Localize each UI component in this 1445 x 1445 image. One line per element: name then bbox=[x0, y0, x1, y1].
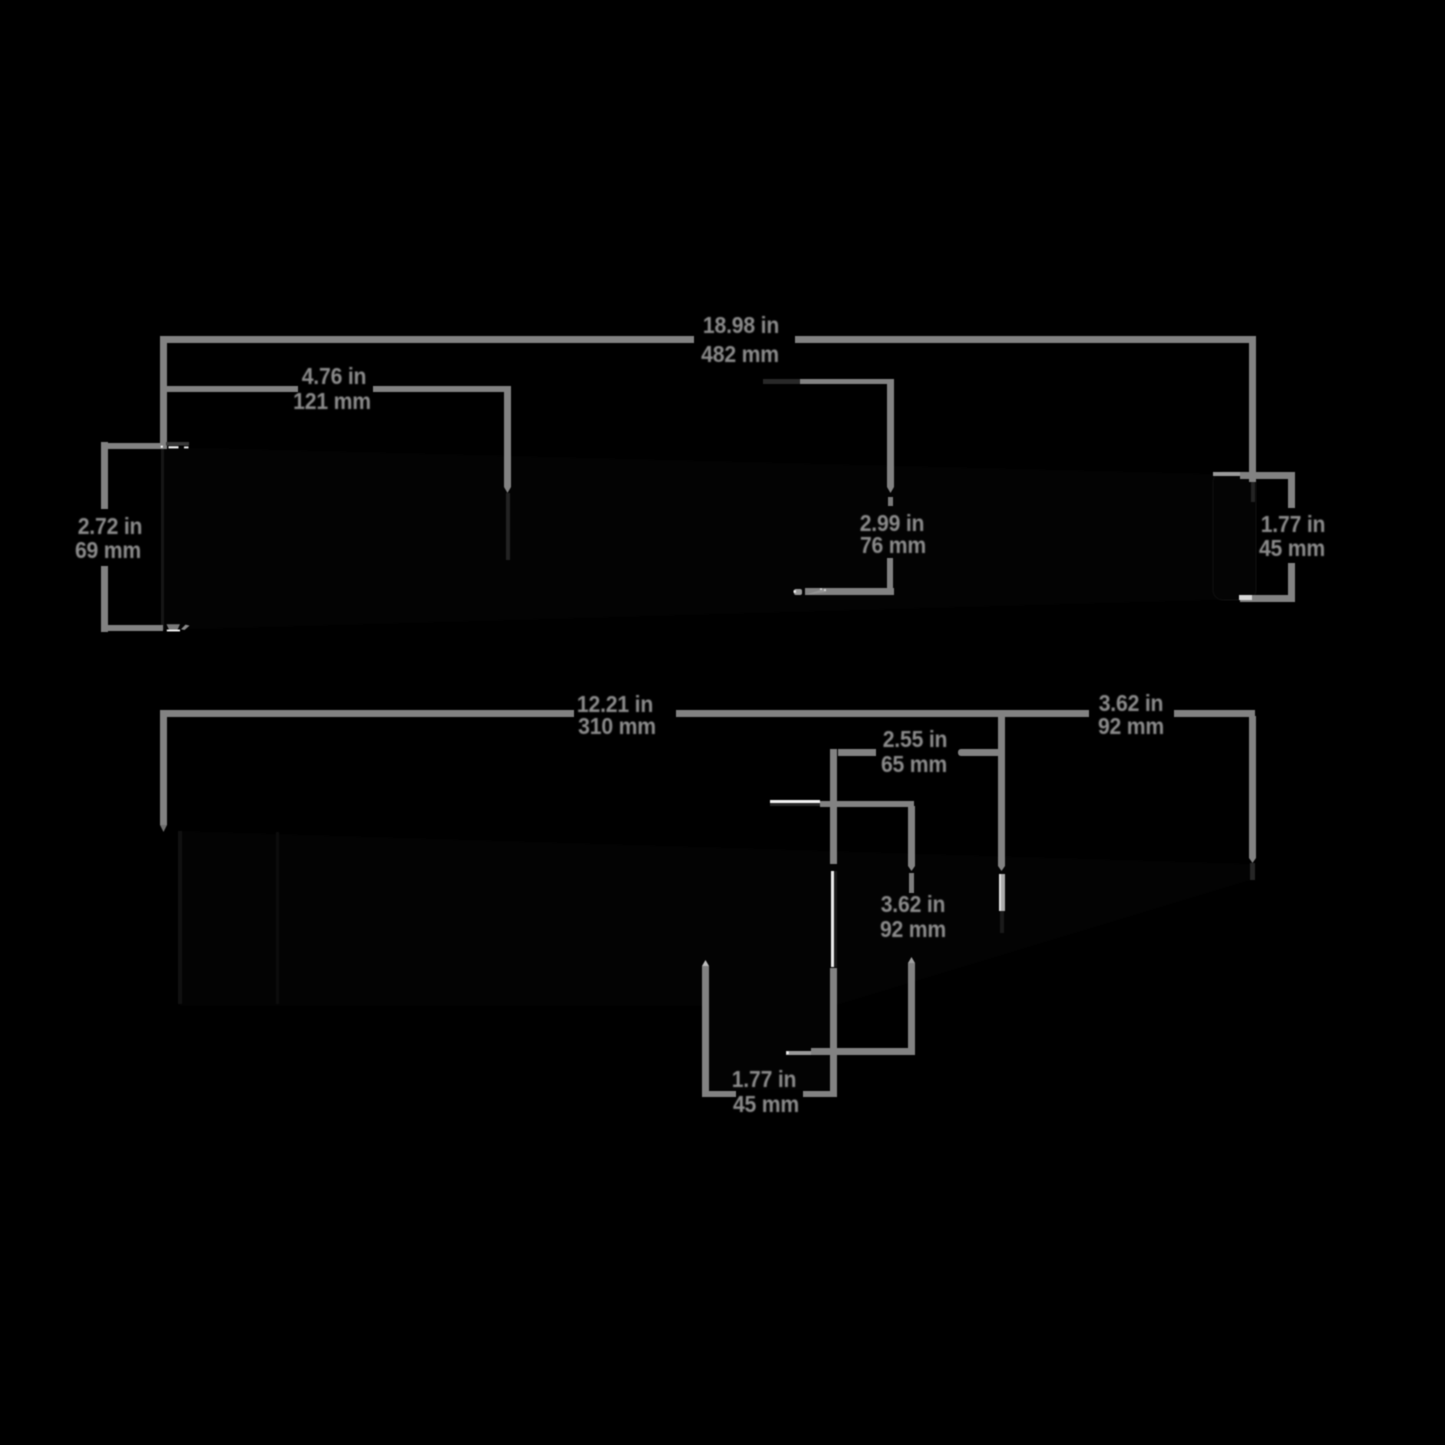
label 69 mm bbox=[75, 539, 141, 562]
dimension 12.21in left extension line bbox=[160, 710, 167, 825]
dimension 2.99in vertical upper bbox=[887, 383, 894, 487]
label 121 mm bbox=[293, 390, 371, 413]
light extension of 3.62in-mid bottom line over product bbox=[786, 1051, 811, 1055]
shared vertical gray lower segment bbox=[830, 968, 837, 1097]
label 4.76 in bbox=[302, 365, 367, 388]
dimension 3.62in-mid bottom horizontal bbox=[811, 1048, 915, 1055]
shared vertical dark part over product bbox=[834, 871, 837, 967]
dimension 18.98in horizontal line right segment bbox=[795, 336, 1256, 343]
white sparkle at left of 3.62in-mid bottom line bbox=[786, 1051, 789, 1054]
bracket 1.77in-right top horizontal bbox=[1240, 472, 1295, 479]
gray trapezoid mark at soundbar bottom-left bbox=[167, 624, 181, 630]
dimension 2.99in bottom horizontal bbox=[805, 588, 894, 595]
label 18.98 in bbox=[703, 314, 779, 337]
bracket 1.77in-bottom horizontal left segment bbox=[709, 1091, 736, 1098]
right extension taper tip bottom row bbox=[1249, 858, 1256, 863]
dark product seam below junction stub bbox=[1000, 911, 1004, 933]
dimension 4.76in right extension line bbox=[504, 392, 511, 487]
label 2.99 in bbox=[860, 512, 925, 535]
shared vertical gray upper segment bbox=[830, 749, 837, 864]
gray blob mark left of 2.99in bottom line bbox=[794, 589, 802, 596]
dimension 4.76in extension arrow tip bbox=[504, 487, 511, 493]
light overlap of 1.77in-right top horizontal on product bbox=[1213, 472, 1240, 476]
bracket 1.77in-right vertical lower segment bbox=[1288, 563, 1295, 602]
label 65 mm bbox=[881, 753, 947, 776]
label 92 mm top bbox=[1098, 715, 1164, 738]
white sparkle at bracket junction bbox=[161, 446, 163, 448]
dimension 3.62in-top horizontal segment 3 bbox=[1174, 710, 1255, 717]
bracket 1.77in-bottom left vertical bbox=[702, 966, 709, 1097]
label 310 mm bbox=[578, 715, 656, 738]
white specular bar at soundbar bottom-left bbox=[167, 630, 180, 632]
label 92 mm mid bbox=[880, 918, 946, 941]
product right pod side view (near-black) bbox=[1213, 472, 1256, 600]
dimension 2.99in vertical upper arrow tip bbox=[887, 487, 894, 493]
dark under strip over product on 3.62in-mid top line bbox=[770, 803, 820, 806]
product soundbar front view (near-black) bbox=[164, 447, 1255, 630]
bracket 2.72in bottom horizontal bbox=[101, 625, 163, 632]
dimension 2.55in horizontal right segment bbox=[958, 749, 1003, 756]
label 1.77 in bottom bbox=[732, 1068, 797, 1091]
dimension 18.98in right extension line bbox=[1249, 336, 1256, 482]
label 45 mm right bbox=[1259, 537, 1325, 560]
dark product edge under 4.76in arrow bbox=[506, 493, 510, 560]
label 76 mm bbox=[860, 534, 926, 557]
dark top edge bar at soundbar top-left corner bbox=[166, 442, 189, 446]
dimension 2.99in arrow stub bbox=[888, 497, 893, 506]
dimension 2.99in top horizontal dark part over product bbox=[763, 379, 801, 384]
3.62in-mid vertical lower arrow tip up bbox=[908, 957, 915, 963]
dimension 4.76in horizontal line left segment bbox=[167, 386, 298, 393]
product soundbar front left edge highlight bbox=[161, 447, 164, 630]
product top view inner seam bbox=[276, 832, 279, 1004]
dimension long horizontal segment 2 bbox=[676, 710, 1089, 717]
bracket 2.72in left vertical upper segment bbox=[101, 442, 108, 509]
white specular top strip over product on 3.62in-mid top line bbox=[770, 800, 820, 803]
label 482 mm bbox=[701, 343, 779, 366]
right extension dark stub over product bbox=[1250, 863, 1255, 880]
junction vertical light stub over product bbox=[999, 874, 1005, 911]
shared vertical white-lit part over product bbox=[831, 871, 834, 967]
bracket 1.77in-right vertical upper segment bbox=[1288, 472, 1295, 508]
dimension 18.98in horizontal line left segment bbox=[161, 336, 694, 343]
3.62in-mid vertical upper arrow tip bbox=[908, 866, 915, 871]
dimension 3.62in-mid top horizontal bbox=[820, 801, 914, 807]
light wedge at start of 2.99in bottom line bbox=[805, 588, 826, 595]
label 3.62 in mid bbox=[881, 893, 946, 916]
dimension 2.99in vertical lower stub bbox=[887, 558, 893, 588]
dimension 18.98in right extension dark continuation over product bbox=[1251, 482, 1255, 502]
white sparkle on blob bbox=[794, 590, 797, 593]
bracket 2.72in left vertical lower segment bbox=[101, 566, 108, 632]
white specular dash 2 at soundbar top-left bbox=[184, 446, 189, 448]
white overlap of 1.77in-right bottom horizontal on product bbox=[1239, 595, 1252, 600]
bracket 1.77in-bottom horizontal right segment bbox=[803, 1091, 836, 1098]
junction vertical arrow tip bbox=[998, 866, 1005, 871]
product top view (near-black) bbox=[178, 831, 1250, 1006]
label 3.62 in top bbox=[1099, 692, 1164, 715]
label 1.77 in right bbox=[1261, 513, 1326, 536]
white sparkle 2 on 2.99in line start bbox=[824, 589, 826, 591]
label 12.21 in bbox=[577, 693, 653, 716]
bracket 2.72in top horizontal bbox=[101, 443, 167, 450]
white specular dash 1 at soundbar top-left bbox=[169, 446, 179, 448]
dimension 3.62in-mid vertical upper bbox=[908, 806, 915, 866]
label 2.55 in bbox=[883, 728, 948, 751]
gray slash mark at soundbar bottom-left bbox=[181, 625, 190, 630]
dimension 3.62in-mid vertical lower bbox=[908, 963, 915, 1055]
product bottom speaker pod (near-black) bbox=[702, 963, 833, 1090]
bracket 1.77in-right bottom horizontal bbox=[1240, 595, 1295, 602]
product top view left edge bbox=[178, 831, 182, 1004]
white sparkle 1 on 2.99in line start bbox=[820, 588, 822, 590]
label 2.72 in bbox=[78, 515, 143, 538]
dimension 2.55in horizontal left segment bbox=[838, 749, 876, 756]
dimension 3.62in-top right extension line bbox=[1249, 716, 1256, 858]
dimension 4.76in horizontal line right segment bbox=[373, 386, 512, 393]
dimension 12.21in horizontal segment 1 bbox=[161, 710, 574, 717]
dimension 12.21in left extension taper tip bbox=[160, 825, 167, 832]
1.77in-bottom left vertical arrow tip up bbox=[702, 960, 709, 966]
dimension 2.99in top horizontal bbox=[800, 379, 894, 384]
label 45 mm bottom bbox=[732, 1093, 798, 1116]
junction vertical stub white edge bbox=[999, 874, 1001, 911]
dimension junction vertical at 12.21/3.62 split bbox=[998, 716, 1005, 866]
dimension 18.98in left extension line bbox=[160, 336, 167, 444]
3.62in-mid vertical upper stub bbox=[909, 873, 914, 893]
